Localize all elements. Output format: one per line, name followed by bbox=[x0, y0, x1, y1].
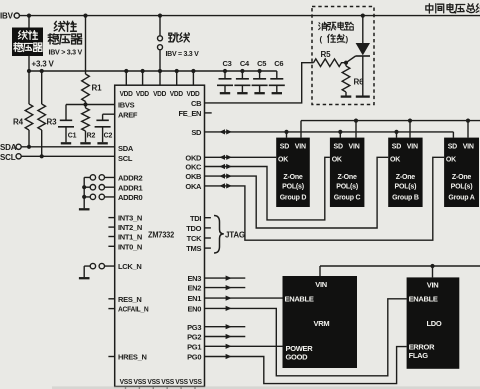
svg-text:Group B: Group B bbox=[392, 194, 419, 201]
VDD pin stubs from rail bbox=[126, 71, 193, 85]
svg-text:(: ( bbox=[320, 35, 323, 44]
svg-text:R4: R4 bbox=[13, 118, 24, 127]
ground below LCK_N pad bbox=[79, 277, 90, 279]
svg-text:EN1: EN1 bbox=[187, 294, 201, 303]
svg-text:ADDR0: ADDR0 bbox=[118, 193, 142, 202]
ground below R2 bbox=[80, 142, 90, 144]
wire OKD to group D OK bbox=[205, 156, 277, 158]
wire VIN bus of POL groups bbox=[301, 121, 480, 138]
VSS pin stubs bbox=[126, 387, 196, 389]
svg-text:PG3: PG3 bbox=[187, 323, 201, 332]
svg-text:SD: SD bbox=[448, 144, 457, 151]
junction on bus to jumper bbox=[158, 14, 162, 18]
junction on bus to SCR anode bbox=[361, 14, 365, 18]
ADDR2 jumper pads bbox=[84, 176, 115, 178]
svg-text:POL(s): POL(s) bbox=[282, 184, 304, 191]
wire +3.3V rail bbox=[29, 70, 277, 72]
junction rail/VDD2 bbox=[141, 69, 145, 73]
LCK_N jumper pads bbox=[84, 265, 115, 267]
junction SD/group D bbox=[284, 130, 288, 134]
terminal circle IBV bbox=[14, 13, 19, 18]
resistor R3 (SCL pull-up) bbox=[38, 71, 46, 156]
capacitor C2 (on AREF) bbox=[103, 114, 115, 142]
junction rail/C4 bbox=[240, 69, 244, 73]
junction R5/R6/gate bbox=[344, 61, 348, 65]
svg-text:TCK: TCK bbox=[187, 234, 202, 243]
svg-text:VSS: VSS bbox=[147, 377, 160, 386]
junction rail/jumper/VDD3 bbox=[158, 69, 162, 73]
svg-text:GOOD: GOOD bbox=[286, 352, 309, 361]
svg-text:OK: OK bbox=[446, 156, 456, 163]
svg-text:R1: R1 bbox=[92, 84, 103, 93]
SCR D1 anode wire from bus bbox=[362, 16, 364, 43]
svg-text:IBV = 3.3 V: IBV = 3.3 V bbox=[166, 49, 199, 58]
wire ADDR common to ground bbox=[83, 177, 85, 208]
junction ADDR0 bbox=[82, 195, 86, 199]
svg-text:ENABLE: ENABLE bbox=[285, 295, 314, 304]
svg-text:C6: C6 bbox=[274, 59, 283, 68]
svg-text:LDO: LDO bbox=[427, 319, 442, 328]
svg-text:SCL: SCL bbox=[118, 154, 133, 163]
svg-text:VRM: VRM bbox=[314, 319, 330, 328]
svg-text:TDI: TDI bbox=[190, 214, 201, 223]
svg-text:CB: CB bbox=[191, 99, 202, 108]
svg-text:VSS: VSS bbox=[134, 377, 147, 386]
ADDR1 jumper pads bbox=[84, 186, 115, 188]
ADDR0 jumper pads bbox=[84, 196, 115, 198]
JTAG brace bbox=[214, 216, 224, 254]
svg-text:IBV > 3.3 V: IBV > 3.3 V bbox=[49, 48, 83, 57]
svg-text:IBVS: IBVS bbox=[118, 101, 135, 110]
svg-text:EN0: EN0 bbox=[187, 305, 201, 314]
capacitor C1 bbox=[66, 105, 86, 143]
junction SD/group C bbox=[338, 130, 342, 134]
svg-text:+3.3 V: +3.3 V bbox=[32, 60, 55, 69]
jumper J1 upper pad bbox=[159, 16, 161, 36]
svg-text:C3: C3 bbox=[223, 59, 232, 68]
junction ADDR1 bbox=[82, 185, 86, 189]
label 线性稳压器 IBV>3.3V (regulator annotation) bbox=[48, 21, 82, 44]
wire SD bus to POL groups bbox=[205, 132, 454, 138]
junction rail/R3 bbox=[40, 69, 44, 73]
svg-text:SD: SD bbox=[280, 144, 289, 151]
svg-text:SCL: SCL bbox=[0, 153, 16, 162]
svg-text:VIN: VIN bbox=[407, 144, 418, 151]
svg-text:Z-One: Z-One bbox=[452, 174, 472, 181]
wire CB to arc suppression bbox=[205, 63, 314, 103]
svg-text:SDA: SDA bbox=[118, 144, 134, 153]
junction rail/VDD5 bbox=[191, 69, 195, 73]
junction VIN/group C bbox=[354, 119, 358, 123]
LDO module bbox=[407, 277, 460, 368]
svg-text:VDD: VDD bbox=[187, 89, 201, 98]
label 跳线 (jumper) bbox=[169, 33, 190, 42]
svg-text:PG0: PG0 bbox=[187, 353, 201, 362]
svg-text:SDA: SDA bbox=[0, 143, 17, 152]
svg-text:OK: OK bbox=[332, 156, 342, 163]
ground below ADDR pads bbox=[79, 208, 90, 210]
wire PG1 to VRM POWER GOOD bbox=[205, 345, 283, 347]
ground below R6 bbox=[341, 95, 352, 97]
net label 中间电压总线 (intermediate voltage bus) bbox=[426, 4, 480, 13]
junction SD/group B bbox=[394, 130, 398, 134]
svg-text:EN3: EN3 bbox=[187, 274, 201, 283]
POL module group D bbox=[276, 138, 310, 207]
wire VIN feed for VRM and LDO bbox=[320, 266, 480, 276]
wire IBVS node to pin IBVS bbox=[86, 104, 115, 106]
wire LCK_N to ground bbox=[83, 266, 85, 277]
svg-text:JTAG: JTAG bbox=[225, 231, 245, 240]
svg-text:TDO: TDO bbox=[186, 224, 201, 233]
bus marks on SD bbox=[219, 129, 225, 134]
svg-text:OKA: OKA bbox=[185, 182, 202, 191]
wire SDA bbox=[21, 146, 115, 148]
junction VIN/group A bbox=[466, 119, 470, 123]
svg-text:VDD: VDD bbox=[170, 89, 184, 98]
junction on bus to R1 bbox=[83, 14, 87, 18]
svg-text:VSS: VSS bbox=[175, 377, 188, 386]
jumper J1 lower pad bbox=[158, 45, 163, 50]
svg-text:OKC: OKC bbox=[185, 163, 202, 172]
svg-text:VDD: VDD bbox=[136, 89, 150, 98]
svg-text:C4: C4 bbox=[240, 59, 250, 68]
svg-text:EN2: EN2 bbox=[187, 284, 201, 293]
svg-text:C2: C2 bbox=[104, 133, 113, 140]
resistor R6 bbox=[342, 63, 350, 96]
svg-text:VSS: VSS bbox=[120, 377, 133, 386]
svg-text:R2: R2 bbox=[87, 133, 96, 140]
svg-text:VSS: VSS bbox=[161, 377, 174, 386]
resistor R1 bbox=[82, 74, 90, 102]
junction SDA/R4 bbox=[27, 145, 31, 149]
svg-text:VSS: VSS bbox=[189, 377, 202, 386]
svg-text:OKB: OKB bbox=[185, 172, 202, 181]
svg-text:VIN: VIN bbox=[349, 144, 360, 151]
ground below C1 bbox=[61, 142, 71, 144]
wire SCL bbox=[21, 155, 115, 157]
svg-text:AREF: AREF bbox=[118, 110, 138, 119]
wire EN1 to VRM ENABLE bbox=[205, 297, 283, 299]
wire regulator output to +3.3V rail bbox=[28, 56, 30, 71]
svg-text:VDD: VDD bbox=[153, 89, 167, 98]
wire OKC to group C OK bbox=[205, 157, 330, 220]
wire R1 to IBVS node bbox=[85, 102, 87, 105]
POL module group B bbox=[388, 138, 422, 207]
junction rail/regulator/R4 bbox=[27, 69, 31, 73]
svg-text:R3: R3 bbox=[47, 118, 58, 127]
wire OKA to group A OK bbox=[205, 157, 445, 240]
svg-text:INT2_N: INT2_N bbox=[118, 223, 142, 232]
junction rail/C5 bbox=[258, 69, 262, 73]
svg-text:C1: C1 bbox=[68, 133, 77, 140]
svg-text:OK: OK bbox=[278, 156, 288, 163]
svg-text:R5: R5 bbox=[321, 50, 332, 59]
svg-text:VIN: VIN bbox=[463, 144, 474, 151]
svg-text:IBV: IBV bbox=[0, 12, 14, 21]
svg-text:ENABLE: ENABLE bbox=[409, 294, 438, 303]
IC U1 ZM7332 body bbox=[115, 85, 205, 386]
ground below SCR bbox=[356, 95, 370, 97]
svg-text:VIN: VIN bbox=[427, 281, 439, 290]
svg-text:ADDR1: ADDR1 bbox=[118, 183, 142, 192]
svg-text:INT1_N: INT1_N bbox=[118, 233, 142, 242]
svg-text:VIN: VIN bbox=[295, 144, 306, 151]
SCR gate wire bbox=[346, 56, 356, 63]
junction rail/VDD4 bbox=[175, 69, 179, 73]
svg-text:VDD: VDD bbox=[120, 89, 134, 98]
junction SCL/R3 bbox=[40, 154, 44, 158]
wire IBV bus down to R1 (crosses rail) bbox=[85, 16, 87, 74]
wire EN0 to LDO ENABLE bbox=[205, 299, 407, 376]
svg-text:PG1: PG1 bbox=[187, 342, 201, 351]
svg-text:INT0_N: INT0_N bbox=[118, 242, 142, 251]
svg-text:RES_N: RES_N bbox=[118, 295, 142, 304]
svg-text:SD: SD bbox=[191, 128, 202, 137]
POL module group A bbox=[444, 138, 479, 207]
svg-text:INT3_N: INT3_N bbox=[118, 214, 142, 223]
junction rail/VDD1 bbox=[124, 69, 128, 73]
svg-text:TMS: TMS bbox=[186, 244, 201, 253]
junction VIN/group B bbox=[408, 119, 412, 123]
arc suppression circuit dashed box (消弧电路 任选) bbox=[312, 7, 374, 105]
svg-text:HRES_N: HRES_N bbox=[118, 353, 147, 362]
svg-text:): ) bbox=[346, 35, 349, 44]
svg-text:Z-One: Z-One bbox=[283, 174, 303, 181]
ground below C2 bbox=[97, 142, 107, 144]
POL module group C bbox=[330, 138, 365, 207]
node IBVS junction bbox=[83, 102, 87, 106]
svg-text:SD: SD bbox=[334, 144, 343, 151]
wire PG0 to LDO ERROR FLAG bbox=[205, 347, 407, 384]
svg-text:Group D: Group D bbox=[280, 194, 307, 201]
SCR D1 (crowbar diode) bbox=[356, 43, 370, 55]
junction rail/C3 bbox=[223, 69, 227, 73]
svg-text:Group A: Group A bbox=[448, 194, 474, 201]
wire IBV bus into regulator bbox=[28, 16, 30, 28]
svg-text:OK: OK bbox=[390, 156, 400, 163]
svg-text:POL(s): POL(s) bbox=[336, 184, 358, 191]
svg-text:Group C: Group C bbox=[334, 194, 361, 201]
junction on bus to linear regulator bbox=[27, 14, 31, 18]
svg-text:FE_EN: FE_EN bbox=[179, 109, 202, 118]
linear regulator U2 (black box 线性稳压器) bbox=[12, 28, 43, 57]
svg-text:Z-One: Z-One bbox=[396, 174, 416, 181]
wire intermediate voltage bus (top horizontal) bbox=[19, 15, 480, 17]
wire OKB to group B OK bbox=[205, 157, 389, 228]
VRM module bbox=[283, 276, 358, 368]
svg-text:ZM7332: ZM7332 bbox=[148, 230, 175, 239]
svg-text:SD: SD bbox=[392, 144, 401, 151]
resistor R2 bbox=[82, 105, 90, 143]
svg-text:PG2: PG2 bbox=[187, 333, 201, 342]
svg-text:Z-One: Z-One bbox=[337, 174, 357, 181]
junction VIN/LDO bbox=[430, 264, 434, 268]
svg-text:POL(s): POL(s) bbox=[395, 184, 417, 191]
svg-text:LCK_N: LCK_N bbox=[118, 262, 142, 271]
resistor R4 (SDA pull-up) bbox=[25, 71, 33, 147]
svg-text:POL(s): POL(s) bbox=[451, 184, 473, 191]
SCR cathode wire bbox=[362, 56, 364, 96]
svg-text:FLAG: FLAG bbox=[409, 351, 429, 360]
svg-text:C5: C5 bbox=[257, 59, 266, 68]
svg-text:VIN: VIN bbox=[315, 280, 327, 289]
scan artifact band at bottom bbox=[52, 386, 480, 389]
svg-text:ADDR2: ADDR2 bbox=[118, 174, 142, 183]
svg-text:ACFAIL_N: ACFAIL_N bbox=[118, 305, 149, 314]
svg-text:OKD: OKD bbox=[185, 154, 202, 163]
